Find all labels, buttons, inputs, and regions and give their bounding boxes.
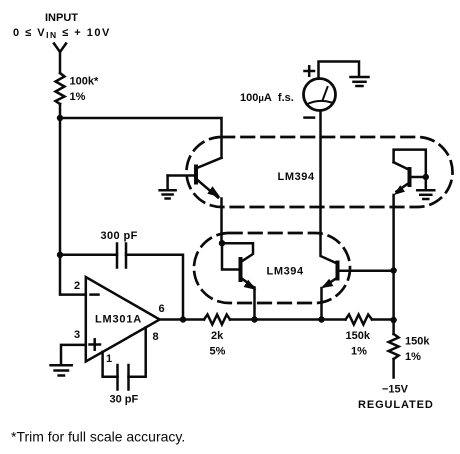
wire meter to Q4 collector — [321, 111, 337, 264]
svg-text:1%: 1% — [70, 91, 86, 103]
svg-text:−15V: −15V — [382, 384, 409, 396]
resistor R3 150k 1% horizontal — [346, 315, 373, 325]
svg-text:LM394: LM394 — [267, 266, 305, 278]
svg-text:150k: 150k — [346, 330, 371, 342]
svg-text:3: 3 — [74, 329, 80, 341]
resistor R4 150k 1% vertical — [389, 320, 399, 378]
dashed outline LM394 upper pair — [187, 137, 453, 207]
Q2 emitter arrow — [394, 185, 405, 195]
dashed outline LM394 lower pair — [194, 233, 350, 303]
capacitor C1 300pF — [60, 244, 183, 320]
svg-text:8: 8 — [153, 331, 159, 343]
wire pin3 to ground — [61, 345, 86, 365]
transistor Q2 upper-right (diode connected) — [394, 150, 426, 320]
op-amp minus tick pin2 — [91, 293, 99, 296]
svg-text:300 pF: 300 pF — [101, 230, 138, 242]
node dot feedback tap — [57, 252, 63, 258]
svg-text:30 pF: 30 pF — [110, 394, 139, 406]
meter M1 100uA — [304, 79, 336, 111]
svg-text:*Trim for full scale accuracy.: *Trim for full scale accuracy. — [11, 429, 185, 445]
meter plus sign — [305, 66, 315, 75]
svg-text:100k*: 100k* — [70, 76, 99, 88]
svg-text:1: 1 — [106, 353, 112, 365]
svg-text:150k: 150k — [405, 336, 430, 348]
node dot Q4 base / right rail — [390, 267, 396, 273]
transistor Q3 lower-left (diode connected) — [222, 243, 255, 319]
resistor R1 100k 1% — [56, 73, 65, 118]
node dot input/100k junction — [57, 115, 63, 121]
node dot Q1 emitter / Q3 — [219, 240, 225, 246]
Q1 emitter arrow — [207, 186, 220, 197]
node dot Q2 base-ground — [423, 174, 429, 180]
op-amp U1 LM301A triangle — [86, 277, 160, 362]
svg-text:2: 2 — [74, 280, 80, 292]
meter minus sign — [305, 116, 315, 119]
svg-text:LM301A: LM301A — [95, 314, 142, 326]
node dot Q4 emitter bus — [318, 316, 324, 322]
svg-text:1%: 1% — [405, 351, 421, 363]
ground (meter) — [351, 77, 369, 86]
svg-text:100μA f.s.: 100μA f.s. — [240, 92, 294, 104]
svg-text:2k: 2k — [211, 330, 224, 342]
ground (Q2) — [417, 177, 434, 199]
svg-text:REGULATED: REGULATED — [358, 399, 434, 411]
resistor R2 2k 5% — [204, 315, 230, 325]
Q3 emitter arrow — [244, 280, 257, 290]
svg-text:6: 6 — [159, 303, 165, 315]
op-amp plus tick pin3 — [90, 339, 101, 349]
transistor Q1 upper-left — [168, 158, 222, 243]
svg-text:5%: 5% — [210, 346, 226, 358]
node dot op-amp output — [180, 316, 186, 322]
transistor Q4 lower-right — [322, 261, 394, 320]
Q4 emitter arrow — [321, 279, 333, 288]
wire left vertical to op-amp pin 2 — [60, 118, 86, 295]
wire — [230, 318, 346, 321]
svg-text:LM394: LM394 — [278, 171, 316, 183]
svg-text:0 ≤ VIN ≤ + 10V: 0 ≤ VIN ≤ + 10V — [13, 27, 111, 40]
svg-text:INPUT: INPUT — [45, 12, 78, 24]
svg-text:1%: 1% — [351, 346, 367, 358]
input terminal arrow — [54, 44, 66, 74]
ground (pin3) — [51, 365, 72, 375]
wire meter top to ground — [319, 62, 360, 79]
wire top horizontal to Q1 collector — [60, 118, 222, 158]
node dot Q3 emitter bus — [251, 316, 257, 322]
wire output bus y=319.5 — [160, 318, 204, 321]
wire — [372, 318, 394, 321]
capacitor C2 30pF with pin1 pin8 wires — [103, 328, 146, 390]
node dot right rail bus — [390, 317, 396, 323]
ground (Q1 base) — [160, 176, 176, 199]
